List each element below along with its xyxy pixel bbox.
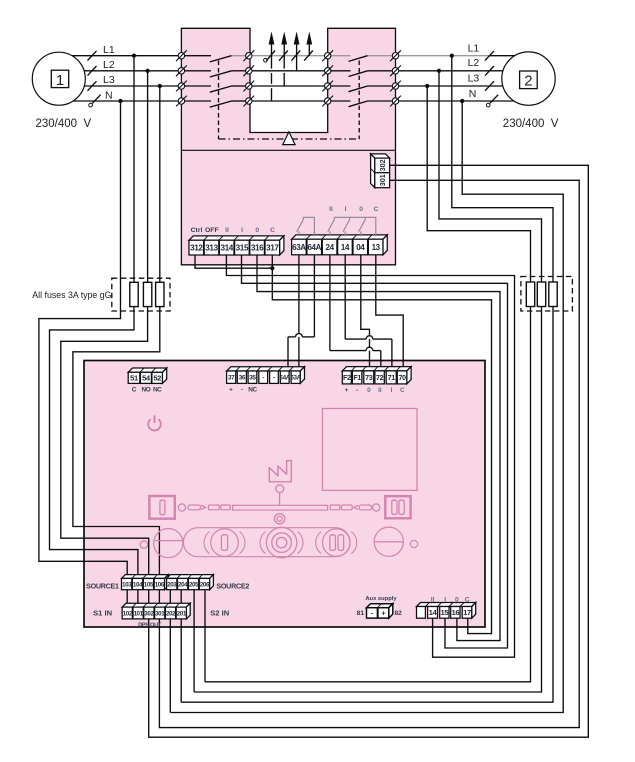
fuse F1: [130, 282, 138, 306]
svg-text:104: 104: [133, 581, 143, 588]
svg-text:2: 2: [524, 73, 532, 90]
junction node L3 left: [158, 84, 162, 88]
svg-text:N: N: [105, 89, 113, 101]
svg-text:201: 201: [177, 610, 187, 617]
svg-text:OUT: OUT: [150, 622, 162, 628]
wire L3 fuse F3 to terminal 106: [73, 307, 160, 576]
right pole contact row 2: [331, 70, 351, 72]
svg-text:316: 316: [251, 244, 264, 253]
wire ATS 64A to controller 64A (hops 63A wire): [313, 255, 315, 337]
svg-text:04: 04: [356, 243, 365, 252]
wire L1 source1 to fuse F1: [133, 56, 135, 283]
svg-text:-: -: [273, 375, 275, 382]
svg-text:L2: L2: [103, 59, 115, 71]
svg-text:-: -: [356, 387, 358, 394]
ATS terminal left-pole inner row 3: [243, 81, 254, 92]
svg-text:37: 37: [228, 375, 235, 382]
svg-text:36: 36: [239, 375, 246, 382]
mimic pills right: [330, 505, 371, 510]
svg-text:II: II: [431, 597, 435, 604]
wire terminal 317 down: [271, 255, 273, 268]
load switch slash arrow 3: [291, 51, 300, 61]
wire ATS 04 to controller 73: [361, 255, 370, 368]
wire ATS 315 to controller 15: [242, 255, 508, 648]
wire L1 source2 to fuse then terminal 206: [452, 56, 553, 282]
junction node L2 right: [437, 69, 441, 73]
ATS internal divider: [181, 149, 395, 151]
junction node L2 left: [146, 69, 150, 73]
switch slash L3 source 1: [88, 81, 97, 91]
svg-text:302: 302: [144, 610, 154, 617]
svg-text:103: 103: [122, 581, 132, 588]
fuse F5: [537, 282, 545, 307]
ATS terminal right edge row 3: [390, 81, 401, 92]
svg-text:0: 0: [255, 227, 259, 234]
svg-text:63A: 63A: [290, 375, 301, 382]
ATS auxiliary terminal block 63A-13: [292, 235, 388, 255]
svg-text:301: 301: [155, 610, 165, 617]
aux supply terminals - +: [367, 604, 393, 618]
ATS terminal right-pole inner row 3: [322, 81, 333, 92]
svg-text:C: C: [373, 206, 378, 213]
svg-text:-: -: [262, 375, 264, 382]
factory icon circle: [276, 485, 284, 493]
ATS terminal left edge row 4: [176, 96, 187, 107]
load output arrow 1: [271, 36, 273, 56]
svg-text:82: 82: [395, 610, 403, 617]
load bus row 2: [249, 70, 328, 72]
svg-text:0: 0: [359, 206, 363, 213]
ATS terminal block 301 302: [371, 154, 390, 188]
switch slash L1 source 2: [485, 51, 494, 61]
svg-text:N: N: [469, 88, 477, 100]
wire L2 source1 to fuse F2: [147, 71, 149, 282]
svg-text:14: 14: [429, 608, 438, 617]
svg-text:14: 14: [341, 243, 350, 252]
controller sensing block 203-206: [167, 575, 214, 590]
svg-text:NC: NC: [153, 387, 162, 394]
junction node N left: [118, 99, 122, 103]
wire L2 source2 to fuse then terminal 205: [439, 71, 542, 282]
mimic small circle left: [178, 504, 185, 511]
controller terminal block 37 36 35 - - 64A 63A: [227, 367, 305, 384]
mimic switch II box: [385, 496, 410, 518]
mimic pills left: [188, 505, 230, 510]
svg-text:230/400 V: 230/400 V: [503, 118, 559, 130]
svg-text:F1: F1: [353, 373, 361, 382]
left pole contact row 4: [185, 100, 211, 102]
mimic switch I box: [149, 496, 174, 519]
svg-text:L3: L3: [468, 73, 480, 85]
jumper wires sensing row to input row: [126, 590, 128, 604]
svg-text:C: C: [132, 387, 137, 394]
wire terminal 201 drop: [180, 619, 182, 702]
svg-text:II: II: [378, 387, 382, 394]
switch slash N source 2 with pivot circle: [486, 103, 490, 107]
svg-text:51: 51: [130, 374, 139, 383]
source 1 generator circle: [32, 52, 85, 105]
svg-text:17: 17: [463, 608, 471, 617]
right pole contact row 4: [331, 100, 351, 102]
svg-text:C: C: [465, 597, 470, 604]
svg-text:64A: 64A: [279, 375, 290, 382]
svg-text:206: 206: [200, 581, 210, 588]
switch slash L2 source 2: [485, 66, 494, 76]
svg-text:I: I: [391, 387, 393, 394]
wire L1 from source 1: [60, 55, 181, 57]
switch slash N source 1 with pivot circle: [89, 103, 93, 107]
svg-text:C: C: [270, 227, 275, 234]
load output arrow 4: [308, 36, 310, 56]
svg-text:205: 205: [189, 581, 199, 588]
svg-text:72: 72: [376, 373, 384, 382]
mimic circle position I: [211, 529, 239, 557]
svg-text:13: 13: [372, 243, 381, 252]
fuse group source 2 dashed box: [521, 277, 573, 312]
svg-text:64A: 64A: [308, 243, 322, 252]
controller input block 102 101 302 301 202 201: [122, 603, 190, 619]
ATS terminal left-pole inner row 1: [243, 50, 254, 61]
switch slash L1 source 1: [88, 51, 97, 61]
load bus row 3: [249, 85, 328, 87]
load output arrow 2: [283, 36, 285, 56]
aux contact symbols 24 14 04 13: [328, 217, 376, 236]
mimic bar: [233, 505, 328, 510]
wire ATS 14 to controller 71 (hops 73 wire): [344, 255, 346, 339]
junction node N right: [460, 99, 464, 103]
ATS terminal left-pole inner row 4: [243, 96, 254, 107]
svg-text:S1 IN: S1 IN: [93, 608, 112, 617]
svg-text:L2: L2: [468, 57, 480, 69]
svg-text:73: 73: [365, 373, 373, 382]
fuse F4: [526, 282, 534, 307]
ATS terminal right edge row 2: [390, 65, 401, 76]
controller output block 14 15 16 17: [417, 603, 476, 619]
wire L2 from source 1: [60, 70, 181, 72]
svg-text:+: +: [229, 387, 233, 394]
svg-text:Ctrl: Ctrl: [191, 227, 203, 234]
wire ATS 302 to controller 302: [149, 165, 589, 737]
svg-text:Aux supply: Aux supply: [365, 596, 397, 602]
svg-text:SOURCE2: SOURCE2: [216, 581, 249, 590]
svg-text:71: 71: [388, 373, 396, 382]
wire N to source 2: [396, 100, 515, 102]
transfer switch ATS body: [181, 28, 395, 264]
load output arrow 3: [296, 36, 298, 56]
svg-text:203: 203: [167, 581, 177, 588]
ATS terminal left-pole inner row 2: [243, 65, 254, 76]
controller unit body: [84, 361, 485, 628]
mimic circle source2 side: [374, 527, 403, 556]
svg-text:24: 24: [326, 243, 335, 252]
wire ATS 301 to controller 301: [159, 180, 579, 727]
wire L3 from source 1: [60, 85, 181, 87]
mimic circle source1 side: [154, 529, 183, 558]
svg-text:63A: 63A: [292, 243, 306, 252]
junction node L3 right: [425, 84, 429, 88]
mimic target circle: [274, 514, 284, 524]
svg-text:NC: NC: [248, 387, 257, 394]
svg-text:S2 IN: S2 IN: [210, 608, 229, 617]
fuse F2: [143, 282, 151, 306]
wire L2 to source 2: [396, 70, 505, 72]
load switch slash arrow 4: [304, 51, 313, 61]
mimic knob: [266, 527, 296, 557]
controller terminal block F2 F1 73 72 71 70: [342, 367, 411, 384]
svg-text:313: 313: [205, 244, 218, 253]
wire L3 source2 to fuse then terminal 201: [427, 86, 530, 282]
load switch slash arrow 1: [266, 51, 275, 61]
load tap arrow1 to N row: [271, 56, 273, 69]
display rectangle: [323, 409, 418, 491]
load tap arrow3 to L2 row: [296, 56, 298, 71]
right pole contact row 1: [331, 55, 351, 57]
svg-text:NO: NO: [142, 387, 151, 394]
ATS terminal right-pole inner row 4: [322, 96, 333, 107]
svg-text:I: I: [345, 206, 347, 213]
svg-text:0: 0: [367, 387, 371, 394]
wire ATS 316 to controller 16: [257, 255, 500, 641]
wire N source1 to terminal 103: [39, 101, 127, 576]
fuse group source 1 dashed box: [112, 278, 170, 311]
wire ATS 63A to controller 63A: [298, 255, 300, 368]
svg-text:OFF: OFF: [205, 227, 219, 234]
svg-text:II: II: [225, 227, 229, 234]
svg-text:L3: L3: [103, 74, 115, 86]
svg-text:314: 314: [220, 244, 233, 253]
wire N source2 to terminal 202: [170, 101, 563, 713]
svg-text:70: 70: [398, 373, 406, 382]
svg-text:202: 202: [166, 610, 176, 617]
svg-text:315: 315: [236, 244, 249, 253]
svg-text:302: 302: [378, 159, 387, 171]
wire L3 source1 to fuse F3: [159, 86, 161, 282]
mimic separator arcs: [204, 532, 209, 554]
factory icon: [269, 461, 291, 482]
controller terminal block 51 54 52: [128, 368, 167, 383]
wire ATS 314 to controller 14: [226, 255, 514, 657]
load bus row 1 (gray): [249, 55, 328, 57]
mechanism linkage right pole: [358, 61, 360, 140]
svg-text:312: 312: [190, 244, 203, 253]
svg-text:All fuses 3A type gG: All fuses 3A type gG: [32, 290, 111, 300]
svg-text:35: 35: [249, 375, 256, 382]
aux contact symbol 63A-64A: [297, 217, 315, 236]
svg-text:L1: L1: [468, 42, 480, 54]
fuse F6: [549, 282, 557, 307]
ATS terminal left edge row 3: [176, 81, 187, 92]
wire terminal 202 drop: [169, 619, 171, 713]
svg-text:101: 101: [133, 610, 143, 617]
svg-text:DPS: DPS: [138, 622, 149, 628]
ATS terminal right edge row 1: [390, 50, 401, 61]
svg-text:C: C: [400, 387, 405, 394]
junction node L1 left: [132, 54, 136, 58]
svg-text:I: I: [241, 227, 243, 234]
svg-text:+: +: [345, 387, 349, 394]
svg-text:II: II: [329, 206, 333, 213]
load tap arrow2 to L3 row: [283, 56, 285, 69]
svg-text:16: 16: [451, 608, 459, 617]
svg-text:1: 1: [56, 72, 64, 89]
svg-text:301: 301: [378, 174, 387, 186]
svg-text:105: 105: [144, 581, 154, 588]
wire L2 fuse F2 to terminal 105: [61, 307, 149, 576]
svg-text:204: 204: [178, 581, 188, 588]
mechanism linkage left pole: [218, 61, 220, 140]
switch slash L3 source 2: [485, 81, 494, 91]
svg-text:L1: L1: [103, 44, 115, 56]
svg-text:0: 0: [455, 597, 459, 604]
power button icon: [148, 415, 161, 430]
load switch slash arrow 2: [279, 51, 288, 61]
mechanism linkage horizontal: [219, 138, 360, 140]
wire L1 fuse F1 to terminal 104: [50, 307, 138, 576]
left pole contact row 1: [185, 55, 211, 57]
svg-text:230/400 V: 230/400 V: [36, 118, 92, 130]
fuse F3: [156, 282, 164, 306]
svg-text:52: 52: [153, 374, 161, 383]
svg-text:I: I: [444, 597, 446, 604]
svg-text:106: 106: [155, 581, 165, 588]
ATS terminal left edge row 2: [176, 65, 187, 76]
wire terminal 312 down: [195, 255, 272, 268]
controller sensing block 103-106: [122, 575, 169, 590]
mimic circle position II: [323, 529, 351, 557]
left pole contact row 2: [185, 70, 211, 72]
mimic stem: [279, 493, 281, 506]
svg-text:317: 317: [266, 244, 279, 253]
junction node L1 right: [450, 54, 454, 58]
load bus row 4: [249, 100, 328, 102]
right pole contact row 3: [331, 85, 351, 87]
svg-text:-: -: [241, 387, 243, 394]
svg-text:SOURCE1: SOURCE1: [86, 581, 119, 590]
mimic small circle right: [373, 504, 380, 511]
svg-text:F2: F2: [343, 373, 351, 382]
wire ATS 13 to controller 70: [376, 255, 403, 368]
ATS terminal right-pole inner row 1: [322, 50, 333, 61]
wire L1 to source 2 (gray section): [396, 55, 490, 57]
ATS terminal left edge row 1: [176, 50, 187, 61]
load switch pivot circle arrow 1: [264, 58, 268, 62]
wire terminal 205 drop: [193, 590, 195, 692]
wire terminal 206 drop: [204, 590, 206, 682]
wire L3 to source 2: [396, 85, 504, 87]
wire ATS 24 to controller 72 (hops 73 wire): [329, 255, 331, 351]
mechanism triangle symbol: [283, 132, 295, 145]
svg-text:15: 15: [440, 608, 449, 617]
source 2 generator circle: [502, 52, 555, 105]
junction node 312/317: [270, 266, 274, 270]
wire 312/317 to controller 17: [272, 268, 491, 633]
left pole contact row 3: [185, 85, 211, 87]
ATS terminal right edge row 4: [390, 96, 401, 107]
switch slash L2 source 1: [88, 66, 97, 76]
svg-text:54: 54: [142, 374, 151, 383]
ATS terminal right-pole inner row 2: [322, 65, 333, 76]
svg-text:102: 102: [123, 610, 133, 617]
wire N from source 1: [60, 100, 181, 102]
ATS control terminal block 312-317: [189, 236, 284, 255]
svg-text:81: 81: [357, 610, 365, 617]
mimic track: [183, 528, 350, 557]
